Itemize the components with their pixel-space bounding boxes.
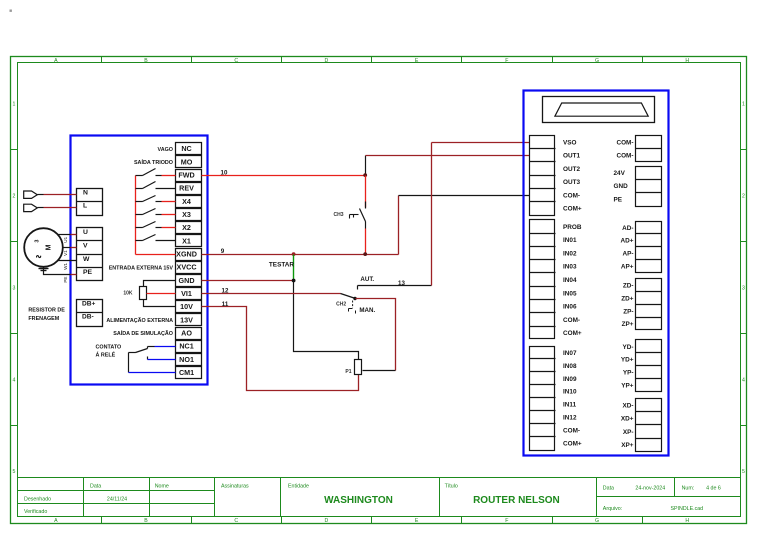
svg-text:AP-: AP- bbox=[622, 251, 633, 258]
svg-text:PE: PE bbox=[63, 277, 68, 283]
svg-text:W1: W1 bbox=[63, 263, 68, 270]
wire motor PE bbox=[44, 267, 71, 275]
svg-text:SAÍDA DE SIMULAÇÃO: SAÍDA DE SIMULAÇÃO bbox=[113, 329, 173, 337]
svg-text:AD-: AD- bbox=[622, 225, 633, 232]
svg-text:IN08: IN08 bbox=[563, 363, 577, 370]
svg-text:COM-: COM- bbox=[616, 153, 633, 160]
svg-text:NC1: NC1 bbox=[179, 342, 193, 351]
svg-text:SPINDLE.cad: SPINDLE.cad bbox=[670, 506, 703, 512]
svg-text:YD+: YD+ bbox=[621, 357, 634, 364]
svg-text:V: V bbox=[83, 243, 88, 250]
svg-text:OUT1: OUT1 bbox=[563, 153, 580, 160]
svg-text:COM-: COM- bbox=[563, 192, 580, 199]
svg-text:FWD: FWD bbox=[178, 170, 194, 179]
wire pot bottom to 10V bbox=[144, 300, 176, 307]
controller group2 box column bbox=[530, 220, 556, 339]
svg-text:ALIMENTAÇÃO EXTERNA: ALIMENTAÇÃO EXTERNA bbox=[106, 317, 173, 324]
svg-text:N: N bbox=[83, 189, 88, 196]
controller X-axis box column bbox=[636, 399, 662, 452]
svg-text:XD+: XD+ bbox=[621, 416, 634, 423]
potentiometer P1 bbox=[345, 360, 361, 376]
label RESISTOR DE FRENAGEM bbox=[28, 308, 65, 322]
svg-text:REV: REV bbox=[179, 184, 194, 193]
svg-text:FRENAGEM: FRENAGEM bbox=[28, 316, 59, 322]
svg-text:9: 9 bbox=[221, 248, 225, 255]
svg-text:IN01: IN01 bbox=[563, 237, 577, 244]
svg-text:PE: PE bbox=[614, 196, 623, 203]
controller display bbox=[543, 97, 655, 123]
motor M1 bbox=[24, 228, 63, 267]
svg-text:VI1: VI1 bbox=[181, 289, 192, 298]
svg-text:24-nov-2024: 24-nov-2024 bbox=[635, 486, 665, 492]
svg-text:COM+: COM+ bbox=[563, 330, 582, 337]
svg-text:CH2: CH2 bbox=[336, 302, 346, 308]
switch S5 (X2) bbox=[136, 222, 176, 228]
svg-text:ZP-: ZP- bbox=[623, 308, 633, 315]
junction GND/TESTAR bbox=[292, 279, 296, 283]
svg-text:1: 1 bbox=[13, 102, 16, 108]
svg-text:C: C bbox=[234, 58, 238, 64]
svg-text:ZD+: ZD+ bbox=[621, 296, 634, 303]
svg-text:1: 1 bbox=[742, 102, 745, 108]
switch CH2 bbox=[336, 286, 357, 314]
wire motor U bbox=[58, 234, 71, 236]
svg-text:DB+: DB+ bbox=[82, 300, 96, 307]
svg-text:U1: U1 bbox=[63, 236, 68, 242]
svg-text:CM1: CM1 bbox=[179, 368, 194, 377]
svg-text:GND: GND bbox=[614, 183, 629, 190]
wire pot top to GND bbox=[144, 281, 176, 287]
controller group3 box column bbox=[530, 347, 556, 451]
svg-text:RESISTOR DE: RESISTOR DE bbox=[28, 308, 65, 314]
terminal block N-L bbox=[77, 189, 103, 216]
svg-text:ENTRADA EXTERNA 15V: ENTRADA EXTERNA 15V bbox=[109, 265, 174, 271]
title block bbox=[18, 478, 741, 517]
svg-text:IN03: IN03 bbox=[563, 264, 577, 271]
svg-text:Data: Data bbox=[603, 486, 614, 492]
controller com box column bbox=[636, 136, 662, 162]
svg-text:F: F bbox=[505, 518, 508, 524]
svg-text:XP+: XP+ bbox=[621, 442, 634, 449]
svg-text:12: 12 bbox=[222, 288, 229, 295]
svg-text:COM+: COM+ bbox=[563, 441, 582, 448]
svg-text:U: U bbox=[83, 229, 88, 236]
svg-text:4: 4 bbox=[742, 377, 745, 383]
svg-text:B: B bbox=[144, 58, 148, 64]
svg-text:24V: 24V bbox=[614, 170, 626, 177]
svg-text:IN10: IN10 bbox=[563, 389, 577, 396]
connector lug J2 bbox=[24, 204, 38, 211]
wire 13 (AUT to VSO) bbox=[358, 143, 530, 286]
svg-text:10: 10 bbox=[221, 169, 228, 176]
wire 10 (FWD to OUT1) bbox=[202, 175, 366, 177]
svg-text:H: H bbox=[685, 58, 689, 64]
svg-text:13: 13 bbox=[398, 280, 405, 287]
svg-text:X2: X2 bbox=[182, 223, 191, 232]
svg-text:IN06: IN06 bbox=[563, 304, 577, 311]
svg-text:DB-: DB- bbox=[82, 314, 94, 321]
svg-text:E: E bbox=[415, 58, 419, 64]
svg-text:Desenhado: Desenhado bbox=[24, 496, 51, 502]
terminal block U-V-W-PE bbox=[77, 228, 103, 281]
svg-text:COM-: COM- bbox=[563, 317, 580, 324]
wire NC1 (blue) bbox=[155, 346, 176, 348]
VFD terminal strip bbox=[176, 143, 202, 379]
potentiometer 10K bbox=[123, 287, 146, 300]
switch S6 (X1) bbox=[136, 235, 176, 241]
svg-text:5: 5 bbox=[742, 469, 745, 475]
svg-text:L: L bbox=[83, 203, 87, 210]
svg-text:3: 3 bbox=[742, 285, 745, 291]
svg-text:Título: Título bbox=[445, 483, 458, 489]
svg-text:Data: Data bbox=[90, 483, 101, 489]
svg-text:PE: PE bbox=[83, 269, 93, 276]
junction FWD/CH3 bbox=[363, 173, 367, 177]
svg-text:2: 2 bbox=[742, 194, 745, 200]
svg-text:IN04: IN04 bbox=[563, 277, 577, 284]
svg-text:TESTAR: TESTAR bbox=[269, 261, 294, 268]
svg-text:Nome: Nome bbox=[155, 483, 169, 489]
TESTAR wire (green) bbox=[293, 255, 295, 281]
controller group1 box column bbox=[530, 136, 556, 216]
svg-text:A: A bbox=[54, 58, 58, 64]
stray mark top-left bbox=[10, 10, 12, 12]
svg-text:B: B bbox=[144, 518, 148, 524]
svg-text:IN11: IN11 bbox=[563, 402, 577, 409]
svg-text:COM-: COM- bbox=[563, 428, 580, 435]
svg-text:COM-: COM- bbox=[616, 139, 633, 146]
wire 9 (XGND) bbox=[202, 196, 399, 255]
wire motor V bbox=[63, 247, 71, 249]
svg-text:13V: 13V bbox=[180, 315, 193, 324]
svg-text:D: D bbox=[325, 58, 329, 64]
svg-text:4: 4 bbox=[13, 377, 16, 383]
svg-text:IN09: IN09 bbox=[563, 376, 577, 383]
svg-text:VSO: VSO bbox=[563, 139, 577, 146]
controller power box column bbox=[636, 167, 662, 207]
svg-text:XP-: XP- bbox=[623, 429, 634, 436]
controller A-axis box column bbox=[636, 222, 662, 273]
svg-text:X4: X4 bbox=[182, 197, 191, 206]
svg-text:WASHINGTON: WASHINGTON bbox=[324, 495, 393, 506]
junction CH3/wire9 bbox=[363, 252, 367, 256]
svg-text:PROB: PROB bbox=[563, 224, 582, 231]
svg-text:CONTATO: CONTATO bbox=[96, 344, 122, 350]
svg-text:Assinaturas: Assinaturas bbox=[221, 483, 249, 489]
svg-text:C: C bbox=[234, 518, 238, 524]
svg-text:MO: MO bbox=[181, 157, 193, 166]
svg-text:ZP+: ZP+ bbox=[622, 321, 634, 328]
svg-text:ZD-: ZD- bbox=[623, 283, 634, 290]
svg-text:OUT2: OUT2 bbox=[563, 166, 580, 173]
svg-text:W: W bbox=[83, 256, 90, 263]
input common bus wire bbox=[135, 176, 137, 255]
svg-text:3: 3 bbox=[35, 239, 41, 242]
switch CH3 bbox=[333, 176, 365, 229]
wire CM1 (blue) bbox=[129, 372, 176, 374]
controller Z-axis box column bbox=[636, 279, 662, 330]
switch S1 (FWD) bbox=[136, 169, 176, 176]
svg-text:Á RELÉ: Á RELÉ bbox=[96, 351, 116, 359]
switch S3 (X4) bbox=[136, 196, 176, 202]
wire bus to XGND bbox=[136, 254, 176, 256]
svg-text:M: M bbox=[46, 244, 53, 250]
wire to COM- bbox=[399, 195, 530, 197]
svg-text:X3: X3 bbox=[182, 210, 191, 219]
svg-text:E: E bbox=[415, 518, 419, 524]
svg-text:AD+: AD+ bbox=[621, 238, 634, 245]
label CONTATO A RELE bbox=[96, 344, 122, 358]
svg-text:H: H bbox=[685, 518, 689, 524]
svg-text:Arquivo:: Arquivo: bbox=[603, 506, 622, 512]
svg-text:P1: P1 bbox=[345, 369, 351, 375]
svg-text:XGND: XGND bbox=[176, 249, 197, 258]
svg-text:5: 5 bbox=[13, 469, 16, 475]
svg-text:COM+: COM+ bbox=[563, 206, 582, 213]
controller enclosure box bbox=[524, 91, 669, 456]
wire CH3 to node 9 bbox=[365, 229, 367, 255]
svg-text:IN12: IN12 bbox=[563, 415, 577, 422]
svg-text:ROUTER NELSON: ROUTER NELSON bbox=[473, 495, 560, 506]
VFD enclosure box bbox=[71, 136, 208, 385]
svg-text:10V: 10V bbox=[180, 302, 193, 311]
svg-text:X1: X1 bbox=[182, 236, 191, 245]
wire 12 (VI1 to CH2) bbox=[202, 293, 341, 295]
svg-text:Verificado: Verificado bbox=[24, 509, 47, 515]
connector lug J1 bbox=[24, 191, 38, 198]
svg-text:4 de 6: 4 de 6 bbox=[706, 486, 721, 492]
relay contact K1 bbox=[129, 347, 155, 373]
controller Y-axis box column bbox=[636, 340, 662, 392]
svg-text:F: F bbox=[505, 58, 508, 64]
svg-text:YP+: YP+ bbox=[621, 382, 634, 389]
svg-text:MAN.: MAN. bbox=[359, 307, 375, 314]
svg-text:2: 2 bbox=[13, 194, 16, 200]
svg-text:10K: 10K bbox=[123, 291, 133, 297]
svg-text:NO1: NO1 bbox=[179, 355, 194, 364]
wire lug to L bbox=[38, 207, 44, 209]
wire lug to N bbox=[38, 194, 44, 196]
wire NO1 (blue) bbox=[148, 359, 176, 361]
svg-text:XVCC: XVCC bbox=[177, 263, 197, 272]
svg-text:AP+: AP+ bbox=[621, 263, 634, 270]
svg-text:11: 11 bbox=[222, 301, 229, 308]
svg-text:XD-: XD- bbox=[622, 402, 633, 409]
svg-text:IN02: IN02 bbox=[563, 250, 577, 257]
wire FWD junction riser bbox=[365, 156, 367, 176]
svg-text:VAGO: VAGO bbox=[158, 147, 173, 153]
junction TESTAR/wire9 bbox=[292, 252, 296, 256]
svg-text:AO: AO bbox=[181, 328, 192, 337]
wire GND to node bbox=[202, 280, 294, 282]
motor earth mark bbox=[39, 269, 49, 271]
svg-text:V1: V1 bbox=[63, 250, 68, 256]
svg-text:AUT.: AUT. bbox=[360, 276, 374, 283]
terminal block DB+ DB- bbox=[77, 300, 103, 327]
svg-text:3: 3 bbox=[13, 285, 16, 291]
svg-text:SAÍDA TRIODO: SAÍDA TRIODO bbox=[134, 158, 173, 166]
svg-text:D: D bbox=[325, 518, 329, 524]
svg-text:G: G bbox=[595, 518, 599, 524]
wire MAN to P1 wiper bbox=[356, 299, 396, 371]
svg-text:CH3: CH3 bbox=[333, 212, 343, 218]
svg-text:Entidade: Entidade bbox=[288, 483, 309, 489]
svg-text:IN05: IN05 bbox=[563, 290, 577, 297]
svg-text:YD-: YD- bbox=[622, 344, 633, 351]
switch S4 (X3) bbox=[136, 209, 176, 215]
svg-text:Num:: Num: bbox=[682, 486, 695, 492]
svg-text:IN07: IN07 bbox=[563, 350, 577, 357]
svg-text:G: G bbox=[595, 58, 599, 64]
svg-text:GND: GND bbox=[179, 276, 195, 285]
svg-text:NC: NC bbox=[181, 144, 191, 153]
svg-text:24/11/24: 24/11/24 bbox=[107, 496, 127, 502]
wire 11 (10V to P1) bbox=[202, 307, 359, 391]
svg-text:OUT3: OUT3 bbox=[563, 179, 580, 186]
svg-text:A: A bbox=[54, 518, 58, 524]
switch S2 (REV) bbox=[136, 182, 176, 189]
wire to OUT1 bbox=[366, 155, 530, 157]
svg-text:YP-: YP- bbox=[623, 370, 634, 377]
wire pot wiper to VI1 bbox=[147, 293, 176, 295]
wire motor W bbox=[58, 260, 77, 262]
wire GND to P1 top bbox=[294, 281, 359, 360]
